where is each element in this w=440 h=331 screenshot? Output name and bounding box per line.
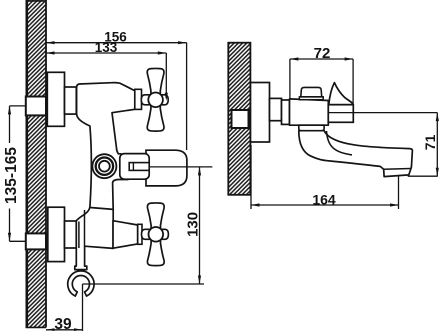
svg-text:72: 72 <box>314 45 331 62</box>
svg-text:130: 130 <box>184 212 201 237</box>
svg-text:39: 39 <box>54 316 72 331</box>
svg-text:135-165: 135-165 <box>3 147 20 204</box>
svg-text:164: 164 <box>312 192 336 208</box>
svg-text:71: 71 <box>422 134 438 150</box>
svg-text:133: 133 <box>95 40 118 55</box>
